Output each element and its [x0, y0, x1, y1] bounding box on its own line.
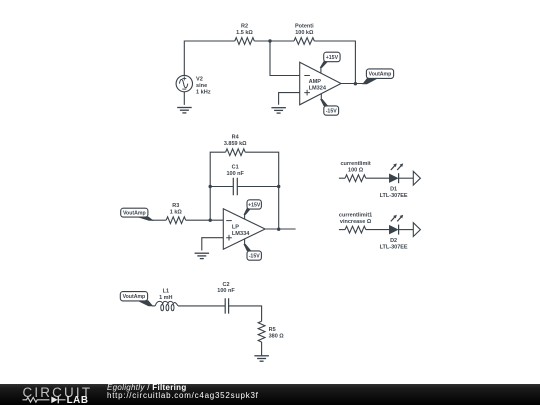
capacitor C2: [217, 282, 235, 314]
net flag (unlabeled): [413, 171, 420, 185]
svg-text:currentlimit1: currentlimit1: [339, 213, 372, 219]
svg-text:LAB: LAB: [67, 395, 89, 404]
wire: [339, 177, 345, 179]
op-amp LP: [223, 209, 265, 250]
svg-text:currentlimit: currentlimit: [340, 161, 370, 167]
svg-text:100 kΩ: 100 kΩ: [295, 30, 314, 36]
svg-text:C2: C2: [222, 282, 229, 288]
svg-text:C1: C1: [232, 164, 239, 170]
wire: [254, 40, 294, 42]
inductor L1: [155, 289, 178, 311]
wire: [186, 219, 224, 221]
svg-text:LP: LP: [232, 224, 239, 230]
LED D2: [380, 215, 408, 251]
wire: [341, 83, 365, 85]
svg-text:-15V: -15V: [249, 253, 260, 259]
wire: [209, 185, 281, 188]
resistor Potenti: [294, 24, 314, 45]
wire: [270, 41, 300, 76]
footer bar: [0, 384, 540, 405]
wire: [152, 305, 155, 307]
svg-text:D2: D2: [390, 238, 397, 244]
node junction: [209, 219, 212, 222]
power flag +15V: [244, 200, 261, 219]
svg-text:D1: D1: [390, 187, 397, 193]
svg-text:AMP: AMP: [309, 79, 322, 85]
resistor currentlimit: [340, 161, 370, 182]
svg-text:R4: R4: [232, 135, 240, 141]
power flag -15V: [321, 94, 339, 115]
node junction: [268, 39, 271, 42]
wire: [183, 92, 185, 105]
power flag -15V: [244, 239, 261, 260]
svg-text:1 kHz: 1 kHz: [196, 89, 211, 95]
net flag VoutAmp: [363, 69, 394, 84]
wire: [210, 152, 225, 220]
wire: [399, 177, 414, 179]
op-amp AMP: [300, 62, 341, 105]
svg-text:V2: V2: [196, 77, 203, 83]
net flag (unlabeled): [413, 223, 420, 237]
svg-text:100 Ω: 100 Ω: [348, 168, 364, 174]
wire: [261, 342, 263, 356]
svg-text:100 nF: 100 nF: [226, 171, 244, 177]
svg-text:R5: R5: [269, 327, 276, 333]
wire: [152, 219, 166, 221]
ground: [254, 356, 269, 361]
wire: [399, 229, 414, 231]
svg-text:R2: R2: [241, 24, 248, 30]
svg-text:L1: L1: [163, 289, 169, 295]
wire: [229, 306, 262, 321]
voltage source V2: [176, 75, 211, 95]
ground: [195, 253, 210, 258]
svg-text:vincrease Ω: vincrease Ω: [340, 219, 372, 225]
wire: [339, 229, 345, 231]
node junction: [354, 82, 357, 85]
resistor R4: [224, 135, 247, 156]
svg-text:VoutAmp: VoutAmp: [123, 211, 146, 217]
svg-text:LTL-307EE: LTL-307EE: [380, 244, 408, 250]
wire: [366, 229, 390, 231]
svg-text:Potenti: Potenti: [295, 24, 314, 30]
svg-text:1.5 kΩ: 1.5 kΩ: [236, 30, 253, 36]
footer text: [107, 384, 259, 400]
svg-text:sine: sine: [196, 83, 207, 89]
wire: [184, 41, 235, 75]
wire: [245, 152, 279, 229]
CircuitLab logo: [22, 385, 102, 404]
resistor R3: [166, 203, 186, 223]
net flag VoutAmp: [120, 292, 152, 306]
svg-text:3.859 kΩ: 3.859 kΩ: [224, 141, 247, 147]
wire: [314, 41, 355, 84]
svg-text:100 nF: 100 nF: [217, 288, 235, 294]
resistor currentlimit1: [339, 213, 372, 234]
net flag VoutAmp: [121, 208, 153, 220]
svg-text:1 kΩ: 1 kΩ: [170, 210, 183, 216]
svg-text:R3: R3: [172, 203, 179, 209]
svg-text:1 mH: 1 mH: [159, 295, 172, 301]
svg-text:LM324: LM324: [309, 85, 327, 91]
wire: [202, 238, 224, 251]
capacitor C1: [226, 164, 244, 195]
resistor R2: [235, 24, 255, 45]
wire: [366, 177, 390, 179]
svg-text:-15V: -15V: [326, 108, 337, 114]
ground: [177, 108, 192, 113]
svg-text:VoutAmp: VoutAmp: [123, 294, 146, 300]
svg-text:380 Ω: 380 Ω: [269, 333, 285, 339]
power flag +15V: [320, 52, 340, 73]
ground: [271, 108, 286, 113]
wire: [178, 305, 225, 307]
node junction: [277, 228, 280, 231]
svg-text:VoutAmp: VoutAmp: [369, 72, 392, 78]
svg-text:LTL-307EE: LTL-307EE: [380, 193, 408, 199]
wire: [265, 228, 296, 230]
svg-text:+15V: +15V: [248, 202, 261, 208]
svg-text:LM334: LM334: [232, 231, 250, 237]
resistor R5: [258, 321, 284, 342]
LED D1: [380, 163, 408, 199]
svg-text:+15V: +15V: [326, 55, 339, 61]
wire: [279, 93, 300, 105]
